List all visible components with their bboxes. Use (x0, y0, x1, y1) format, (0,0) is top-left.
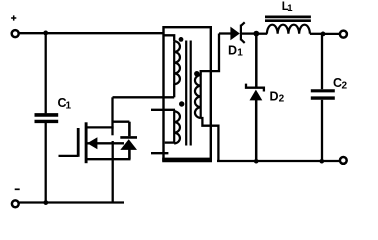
plus sign (11, 15, 16, 20)
svg-text:2: 2 (342, 81, 348, 92)
svg-text:1: 1 (237, 48, 243, 59)
wire to D1 anode (219, 32, 231, 34)
svg-text:1: 1 (66, 100, 72, 111)
capacitor C2 (311, 89, 335, 92)
transformer T1 phase dot (demag winding top) (179, 101, 184, 106)
transformer T1 phase dot (secondary) (194, 71, 199, 76)
transformer T1 outline box (164, 27, 211, 160)
transistor Q1 channel bar (85, 122, 88, 163)
svg-text:1: 1 (287, 3, 293, 14)
transistor Q1 gate lead (59, 155, 79, 157)
transistor Q1 gate bar (77, 128, 80, 157)
wire drain riser (111, 97, 113, 135)
node C2 bottom junction (320, 159, 325, 164)
wire D2 branch top (255, 34, 258, 87)
diode D1 bar top hook (241, 22, 245, 26)
output terminal - (bottom-right) (340, 157, 347, 164)
transformer T1 secondary top lead (201, 34, 219, 76)
wire source riser to ground (112, 141, 114, 203)
input terminal - (bottom-left) (12, 200, 19, 207)
diode D1 triangle (230, 27, 239, 41)
wire C2 branch top (321, 34, 323, 89)
diode D2 cathode bar with bent ends (246, 84, 264, 92)
inductor L1 winding (267, 25, 310, 34)
transistor Q1 drain stub (86, 126, 114, 128)
wire secondary bottom lead (201, 118, 219, 161)
svg-text:D: D (228, 43, 237, 57)
transformer T1 demag bottom lead (165, 141, 175, 143)
wire D2 branch bottom (255, 100, 258, 161)
transformer T1 phase dot (primary winding top) (179, 37, 184, 42)
wire to output + terminal (323, 33, 339, 35)
transformer T1 primary top stub (164, 35, 175, 41)
wire body-diode cathode riser (128, 122, 131, 137)
wire C2 branch bottom (321, 100, 323, 161)
output terminal + (top-right) (340, 31, 347, 38)
capacitor C1 (35, 113, 59, 117)
diode D1 bar bottom hook (241, 39, 245, 43)
node C1 bottom junction (43, 200, 48, 205)
wire bottom rail left (19, 201, 124, 203)
wire L1 to C2 node (310, 33, 325, 35)
transformer T1 demag winding (174, 111, 180, 143)
diode body-diode of Q1 triangle (120, 139, 137, 150)
transformer T1 demag top lead (151, 110, 175, 112)
wire C1 branch top (45, 33, 47, 113)
diode body-diode of Q1 cathode bar (120, 136, 137, 139)
wire body-diode anode riser (128, 150, 131, 160)
transformer T1 primary winding (174, 41, 180, 84)
transformer T1 box bottom edge (thick) (162, 158, 212, 163)
node C1 top junction (43, 31, 48, 36)
node A (D1/D2/L1 junction) (253, 31, 259, 37)
minus sign (15, 188, 20, 190)
transformer T1 demag stub (151, 152, 168, 154)
wire bottom rail right (217, 160, 339, 162)
wire body-diode top link (113, 121, 130, 123)
transistor Q1 body stub (87, 142, 124, 144)
svg-text:2: 2 (279, 94, 285, 105)
wire D1 cathode to node (242, 32, 256, 34)
wire drain to primary bottom (113, 96, 175, 98)
svg-text:D: D (270, 89, 279, 103)
transistor Q1 source stub (86, 158, 114, 160)
input terminal + (top-left) (12, 30, 19, 37)
wire body-diode bottom link (113, 158, 131, 160)
transformer T1 secondary winding (195, 75, 201, 118)
wire C1 branch bottom (45, 123, 47, 203)
node C2 top junction (321, 32, 326, 37)
diode D2 triangle (250, 90, 263, 101)
transformer T1 core (186, 41, 191, 146)
transistor Q1 body arrow (87, 137, 97, 149)
node D2 bottom junction (254, 159, 259, 164)
wire top rail left (19, 32, 163, 34)
wire primary bottom drop (173, 84, 175, 97)
wire node to L1 (256, 33, 267, 35)
inductor L1 core lines (265, 17, 311, 21)
diode D1 cathode bar (240, 25, 242, 41)
